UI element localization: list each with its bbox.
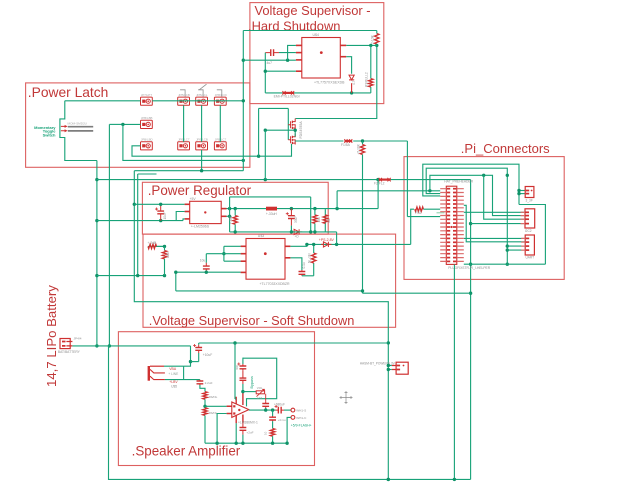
svg-text:+ LINE: + LINE	[168, 372, 178, 376]
wire: x=265.3 down to fuse line	[264, 53, 266, 93]
header pin bars and stubs	[440, 188, 464, 190]
diode D2	[349, 75, 354, 80]
svg-text:R3/PULL2: R3/PULL2	[365, 72, 369, 87]
connector J2 (3.3V)	[525, 187, 534, 198]
junction y=170.7	[200, 169, 203, 172]
wire: fuse line y=92.9	[265, 92, 371, 94]
op-amp U6 LM386	[232, 402, 249, 417]
capacitor C13	[203, 266, 210, 269]
svg-text:JPB/LBD: JPB/LBD	[141, 138, 153, 142]
wire: regulator vin feed y=204.3	[134, 203, 184, 205]
svg-text:Bypass: Bypass	[250, 376, 254, 389]
wire: +BATT vertical bus x=96.9	[96, 161, 98, 346]
wire: nested bus rect3	[430, 175, 525, 215]
svg-text:10uF: 10uF	[163, 212, 167, 219]
resistor R11 (horizontal)	[148, 244, 157, 248]
svg-text:FDS4935A: FDS4935A	[299, 121, 303, 139]
capacitor C18 (output)	[278, 407, 281, 414]
svg-text:0.1u: 0.1u	[302, 262, 306, 268]
wire A: left bus to bottom-right via y=301.7	[134, 171, 388, 480]
svg-text:HASM-BT_POWERS.3V: HASM-BT_POWERS.3V	[360, 362, 396, 366]
wire: battery corner down to jack tie	[184, 346, 191, 366]
svg-text:14,7 LIPo Battery: 14,7 LIPo Battery	[44, 285, 59, 387]
fuse F1	[344, 140, 352, 142]
wire: y=156 run to mosfet	[132, 144, 292, 156]
U4 left pin stubs	[296, 44, 302, 46]
svg-text:Switch: Switch	[43, 132, 56, 137]
wire: U2 pin feedback	[227, 215, 230, 217]
svg-text:.Power Regulator: .Power Regulator	[148, 183, 252, 198]
wire: pad column x=201.6	[201, 105, 203, 141]
capacitor C12 (reg output)	[288, 216, 295, 219]
wire: U4 pin4 to x=265.3	[265, 70, 296, 72]
wire B vertical x=137.7	[137, 174, 139, 276]
wire: U3 pin2 to C13	[206, 253, 240, 255]
svg-text:MOM-SMD2U: MOM-SMD2U	[68, 122, 87, 126]
wire: gate tie x=288.3	[287, 108, 289, 139]
wire: amp V+ rail y=343	[199, 342, 389, 344]
wire: jack tie vertical	[183, 366, 185, 379]
junction bottom rail	[387, 478, 390, 481]
svg-text:10: 10	[264, 431, 268, 435]
svg-text:UART: UART	[526, 256, 535, 260]
wire: V+ jog	[235, 398, 236, 400]
wire: loop right x=310.7	[310, 197, 312, 232]
wire: C10 top lead	[198, 343, 200, 345]
resistor R4	[233, 216, 237, 225]
svg-text:LF2: LF2	[257, 396, 263, 400]
capacitor C16 plates	[240, 366, 247, 369]
wire: UART pin3 from x=507.3	[507, 245, 525, 247]
junction C11 top	[159, 203, 162, 206]
wire: pad column x=183.6	[183, 105, 185, 141]
resistor R8	[203, 408, 207, 416]
junctions output node	[264, 408, 267, 411]
section box: Voltage Supervisor - Hard Shutdown	[250, 3, 384, 104]
wire: x=407.4 into header y=216.6	[407, 216, 440, 218]
wire: F1 net into Pi x=407.4	[406, 141, 408, 217]
wire: header ground drop to bottom rail	[453, 264, 455, 479]
wire: U3 pin1 feed	[224, 245, 241, 247]
wire: conn J2 pin2 stub	[519, 193, 525, 195]
resistor R17	[323, 215, 327, 224]
junction y=361.6	[189, 360, 192, 363]
junction R10 top	[361, 139, 364, 142]
junction R2/pin wire	[375, 44, 378, 47]
wire: conn J2 pin1 stub	[519, 190, 525, 192]
wire: middle pad to bus	[123, 123, 141, 125]
svg-text:VOL: VOL	[257, 386, 263, 390]
junctions on x=243.3	[242, 59, 245, 62]
wire: U3 tie x=223.9	[223, 246, 225, 261]
capacitor C19 (zobel)	[269, 417, 276, 420]
wire: jack tip row	[164, 365, 184, 367]
junction R10 bottom	[361, 289, 364, 292]
wire: ground run y=290.9	[176, 290, 363, 292]
svg-text:+0.1u: +0.1u	[278, 418, 286, 422]
wire: pad column x=201.6 lower	[201, 150, 203, 171]
svg-text:VBA: VBA	[169, 367, 177, 371]
capacitor C20	[240, 428, 247, 431]
junctions J2 stubs	[517, 189, 520, 192]
wire: +BATT riser x=378.1	[377, 180, 379, 209]
svg-text:2.2uF: 2.2uF	[205, 381, 213, 385]
wire pad JP14	[196, 142, 208, 150]
wire: nested bus rect1	[423, 164, 519, 204]
junction R12 top	[163, 245, 166, 248]
wire: UART pin1 from header	[464, 237, 525, 239]
resistor R16	[415, 207, 424, 211]
U2 left pin stubs	[185, 203, 190, 205]
wire: R12 bottom lead	[164, 259, 166, 276]
wire pad JP11 (middle-left)	[141, 120, 153, 128]
wire: R2 bottom to mosfet drain y=118.5	[295, 44, 376, 118]
wire: op-amp IN+ to gnd rail	[217, 414, 227, 444]
wire: R6 bottom lead	[313, 263, 315, 276]
svg-text:Rb/NL: Rb/NL	[209, 395, 218, 399]
wire: C6 to U4 pin2	[279, 52, 296, 54]
resistor R7	[203, 392, 207, 400]
junction middle pad	[121, 123, 124, 126]
wire: C19 to R9	[272, 421, 274, 428]
terminal WH1-C	[291, 416, 295, 420]
wire: R5 bottom lead	[314, 223, 316, 232]
wire B top stub y=174	[138, 173, 157, 175]
wire: gate feed y=108.4	[259, 107, 289, 109]
wire: loop top y=196.9	[230, 196, 311, 198]
wire: top pads to hard-shutdown bus	[152, 100, 243, 102]
wire: R4 bottom lead	[234, 224, 236, 232]
junctions J5	[387, 364, 390, 367]
fuse F3 EMI-PTC	[283, 92, 295, 94]
wire: C17 to output node	[265, 408, 267, 410]
junction R3 top	[369, 44, 372, 47]
wire: R6 top lead	[313, 244, 315, 253]
section box: Power Latch	[26, 83, 250, 167]
wire: loop vertical x=229.6	[229, 197, 231, 232]
wire pad JP9	[196, 97, 208, 105]
svg-text:+-2dB: +-2dB	[148, 241, 157, 245]
junction x=109.4 on battery wire	[108, 344, 111, 347]
wire: Q2 to fuse F1	[295, 140, 343, 142]
wire: op-amp output	[249, 409, 276, 411]
U3 right pin stubs	[285, 245, 290, 247]
svg-text:+-33uH: +-33uH	[266, 212, 278, 216]
wire: rail tie x=325.3	[324, 209, 326, 232]
svg-text:.Power Latch: .Power Latch	[28, 85, 109, 100]
svg-text:+PS-2.8V: +PS-2.8V	[319, 238, 335, 242]
wire: 3.3V rail y=244.4	[307, 243, 411, 245]
wire: y=170.7 run	[134, 170, 243, 172]
junction y=60.2	[286, 59, 289, 62]
svg-text:33uF: 33uF	[294, 216, 298, 223]
wire: pad column x=220.3	[219, 105, 221, 141]
wire: C15 top lead	[199, 379, 201, 381]
capacitor C6 (horizontal)	[271, 49, 274, 56]
section box: Voltage Supervisor - Soft Shutdown	[143, 234, 396, 327]
U3 left pin stubs	[241, 245, 246, 247]
svg-text:4.7: 4.7	[352, 80, 356, 85]
svg-text:4u7: 4u7	[267, 61, 273, 65]
connector J3 (I2C)	[525, 209, 535, 228]
wire: R5 top lead	[314, 209, 316, 215]
junction fb pin	[228, 215, 231, 218]
svg-text:300: 300	[235, 365, 239, 370]
wire: J5 pin2 to bus	[388, 369, 392, 371]
svg-text:2-10K: 2-10K	[371, 34, 375, 44]
wire: header bottom y=264.2	[464, 263, 546, 265]
wire: C12 bottom lead	[290, 226, 292, 232]
svg-text:.Hard Shutdown: .Hard Shutdown	[248, 19, 340, 34]
junctions on wire A	[133, 203, 136, 206]
svg-text:JPB/LCB: JPB/LCB	[178, 93, 190, 97]
wire: to op-amp IN-	[205, 405, 227, 407]
svg-text:+-LM2596S: +-LM2596S	[191, 224, 210, 228]
svg-text:+-680: +-680	[229, 216, 233, 224]
wire: y=60.2 to U4 pin3	[243, 59, 296, 61]
potentiometer VOL	[256, 391, 264, 394]
capacitor C11 (reg input)	[157, 211, 164, 214]
svg-text:JPB/LCL: JPB/LCL	[196, 93, 208, 97]
svg-text:.Speaker Amplifier: .Speaker Amplifier	[132, 444, 241, 459]
transistor Q2 (p-MOSFET bottom)	[288, 136, 290, 143]
svg-text:+LBV: +LBV	[169, 380, 178, 384]
wire: zobel top lead	[272, 410, 274, 416]
wire: amp gnd rail y=443.2	[205, 442, 287, 444]
wire: hard-shutdown left vertical x=243.3	[242, 31, 244, 171]
wire: regulator bottom rail y=231.9	[230, 231, 337, 233]
wire: +5V line to Pi header y=190.8	[337, 190, 440, 192]
resistor R12	[162, 251, 166, 259]
wire: V+ drop x=235 into op-amp	[234, 343, 236, 399]
wire: J5 pin1 to bus	[388, 365, 392, 367]
wire: UART pin4 from x=507.3	[507, 249, 525, 251]
wire: C14 bottom to R6 bottom	[302, 275, 314, 277]
svg-text:3_3F: 3_3F	[526, 198, 533, 202]
wire: bottom enclosure left+bottom	[109, 346, 471, 480]
junctions mosfet link	[294, 129, 297, 132]
wire pad JP12 (bottom-left)	[141, 142, 153, 150]
wire: Q1-Q2 link	[294, 129, 296, 137]
svg-text:NL-1M: NL-1M	[308, 253, 312, 263]
wire: R4 top lead	[234, 209, 236, 216]
junction bus	[482, 174, 485, 177]
wire: bypass/gain loop into op-amp	[243, 358, 277, 406]
svg-text:JP7/LPT: JP7/LPT	[141, 93, 152, 97]
momentary toggle switch S1	[61, 126, 65, 130]
junctions on x=507.3	[506, 174, 509, 177]
svg-text:I2C2: I2C2	[525, 229, 532, 233]
wire: C13 top lead	[205, 254, 207, 263]
junctions on +BATT rail	[264, 178, 267, 181]
svg-text:F2/FL2: F2/FL2	[374, 182, 385, 186]
wire: C15 to R7	[200, 385, 205, 392]
wire B horizontal y=275.6	[97, 275, 165, 277]
wire: WH1-C to gnd rail	[287, 417, 291, 443]
wire: R10 top lead	[362, 141, 364, 145]
wire: F1 to Pi area	[353, 140, 407, 142]
junctions on +5V output	[228, 207, 231, 210]
svg-text:JPB/LCD: JPB/LCD	[215, 93, 227, 97]
U2 right pin stubs	[221, 208, 226, 210]
fuse F2 on +BATT rail	[379, 179, 391, 181]
svg-text:+D: +D	[295, 234, 300, 238]
capacitor C17 (wiper coupling)	[262, 404, 269, 407]
junction ground drop	[453, 478, 456, 481]
resistor R6	[312, 253, 316, 263]
svg-text:+TL77033XXDBZR: +TL77033XXDBZR	[260, 282, 291, 286]
svg-text:.Pi_Connectors: .Pi_Connectors	[461, 141, 550, 156]
svg-text:+LM386MX-1: +LM386MX-1	[238, 421, 258, 425]
audio jack U$5	[148, 366, 150, 381]
svg-text:FB2: FB2	[416, 211, 422, 215]
junctions on x=470.6	[469, 222, 472, 225]
svg-text:EMI-PTILL02NGI: EMI-PTILL02NGI	[274, 95, 300, 99]
wire: UART pin2 from header row5	[464, 205, 525, 242]
junction U3 pin4 wire	[174, 271, 177, 274]
wire: C21 bottom lead	[242, 384, 244, 392]
junction gain node	[241, 390, 244, 393]
wire: U3 pin3 feed	[224, 260, 241, 262]
IC U4 supervisor (hard shutdown)	[302, 38, 341, 79]
resistor R2 (top right)	[375, 34, 379, 45]
svg-text:B2: B2	[327, 218, 331, 222]
svg-text:180: 180	[317, 217, 321, 223]
battery connector JP4	[60, 339, 70, 349]
section box: Power Regulator	[142, 182, 328, 234]
IC U3 supervisor (soft shutdown)	[246, 239, 285, 280]
wire: R11 feed	[148, 245, 165, 247]
wire: U3 right pin1 to rail2	[290, 244, 307, 246]
junction diode bottom	[350, 91, 353, 94]
wire: +5V riser x=337.1	[336, 191, 338, 209]
switch glyphs (gray) above pads	[180, 90, 185, 97]
wire: mosfet source to x=265.3	[265, 129, 295, 131]
wire: right enclosure vertical x=470.6	[470, 180, 472, 480]
wire: ground run y=293.2 to x=470.6	[363, 292, 471, 294]
wire: switch net down-left	[60, 101, 97, 161]
svg-text:U$4: U$4	[313, 33, 319, 37]
resistor R3 pulldown	[369, 79, 373, 87]
svg-text:+TL7757XXSEXDB: +TL7757XXSEXDB	[314, 81, 345, 85]
wire: R3 bottom lead	[370, 87, 372, 93]
wire pad JP15	[214, 142, 226, 150]
section box: Speaker Amplifier	[118, 332, 314, 466]
wire: op-amp gnd pin to rail	[235, 423, 237, 443]
junction V+ drop	[233, 341, 236, 344]
junctions gnd rail	[215, 442, 218, 445]
wire: R3 top lead	[370, 45, 372, 78]
wire: 3.3V loop right side	[519, 205, 545, 265]
svg-text:WH1-S: WH1-S	[296, 409, 306, 413]
wire: top rail y=30.5	[243, 30, 376, 32]
capacitor C21 (series, gain chain)	[240, 378, 247, 380]
wire: switch to pad JP7	[65, 100, 141, 102]
svg-text:U$5: U$5	[171, 385, 177, 389]
svg-text:Rb/NL: Rb/NL	[209, 411, 218, 415]
terminal WH1-S	[291, 408, 295, 412]
section box: Pi_Connectors	[404, 157, 564, 280]
svg-text:10u: 10u	[200, 259, 206, 263]
wire: C20 to gnd rail	[242, 435, 244, 444]
svg-text:1B0: 1B0	[166, 252, 170, 258]
wire: to C10 bottom	[191, 361, 199, 363]
resistor R10	[360, 145, 364, 155]
svg-text:Voltage Supervisor -: Voltage Supervisor -	[255, 3, 371, 18]
wire pad JP10	[214, 97, 226, 105]
wire: U3 right pin2 to C14	[290, 258, 302, 270]
wire: y=160.4 run to x=243.3	[123, 124, 243, 160]
wire: I2C pin4 from x=470.6	[471, 223, 525, 225]
svg-text:BAT/BATTERY: BAT/BATTERY	[58, 350, 81, 354]
junction in- tap	[203, 405, 206, 408]
junction U3 tie	[222, 252, 225, 255]
wire: U4 pin right to x=376.8	[346, 44, 377, 46]
wire: R10 bottom long vertical	[362, 155, 364, 294]
svg-text:WH1-C: WH1-C	[296, 416, 307, 420]
wire: gain to volume pot	[243, 391, 256, 393]
wire pad JP7 (top-left)	[141, 97, 153, 105]
resistor R9 (zobel)	[270, 429, 274, 437]
wire: latch pad vertical bus x=109.4	[108, 124, 110, 346]
wire: battery + feed y=345.9	[72, 345, 190, 347]
wire: jog into regulator gnd pin	[183, 219, 185, 221]
inductor L1	[266, 207, 277, 211]
pot wiper lead	[265, 394, 267, 402]
junction pin4	[264, 70, 267, 73]
junction gate wire	[257, 155, 260, 158]
transistor Q1 (p-MOSFET top)	[288, 121, 290, 128]
wire: U2 pin2 jog to gnd rail	[176, 212, 184, 221]
wire: x=265.3 down to +BATT rail	[264, 130, 266, 179]
wire pad JP13	[178, 142, 190, 150]
svg-text:+5V: +5V	[190, 197, 197, 201]
wire: C10 bottom lead	[198, 353, 200, 362]
wire: U3 pin4 feed y=272.2	[176, 271, 241, 273]
U4 right pin stubs	[340, 44, 346, 46]
junctions rail2	[305, 243, 308, 246]
svg-text:.Voltage Supervisor - Soft Shu: .Voltage Supervisor - Soft Shutdown	[149, 313, 355, 328]
wire: rail1-rail2 tie x=336.6	[336, 232, 338, 245]
junction cap C11 bottom	[159, 219, 162, 222]
svg-text:F1/5A: F1/5A	[341, 143, 351, 147]
wire: R12 top lead	[164, 246, 166, 250]
origin cross marker	[340, 391, 353, 404]
junctions on wire B	[136, 274, 139, 277]
junctions on x=96.9 bus	[95, 178, 98, 181]
capacitor C10	[195, 348, 202, 351]
wire: regulator ground feed y=220.6	[97, 220, 183, 222]
wire: x=175.8 down	[175, 272, 177, 291]
svg-text:U$3: U$3	[258, 234, 264, 238]
wire: U4 pin1 tie	[288, 45, 296, 60]
diode D2 bottom lead	[351, 83, 353, 93]
svg-text:JP4/4: JP4/4	[74, 337, 82, 341]
wire: I2C pin1 from header	[464, 211, 525, 213]
junction y=160.4	[242, 159, 245, 162]
wire: bus drop x=483.7 to I2C pin3	[484, 175, 525, 219]
wire: nested bus rect2	[426, 168, 507, 264]
wire: +5V output y=208.6	[227, 208, 379, 210]
junction C13 bottom	[205, 271, 208, 274]
svg-text:+10uF: +10uF	[203, 353, 212, 357]
wire: C18 to terminal	[284, 409, 291, 411]
svg-text:JPB/LBB: JPB/LBB	[141, 116, 153, 120]
resistor R5	[313, 215, 317, 224]
wire: R8 bottom to gnd rail	[204, 415, 206, 443]
diode D1 (catch)	[294, 229, 299, 234]
connector J4 (UART)	[525, 235, 534, 255]
